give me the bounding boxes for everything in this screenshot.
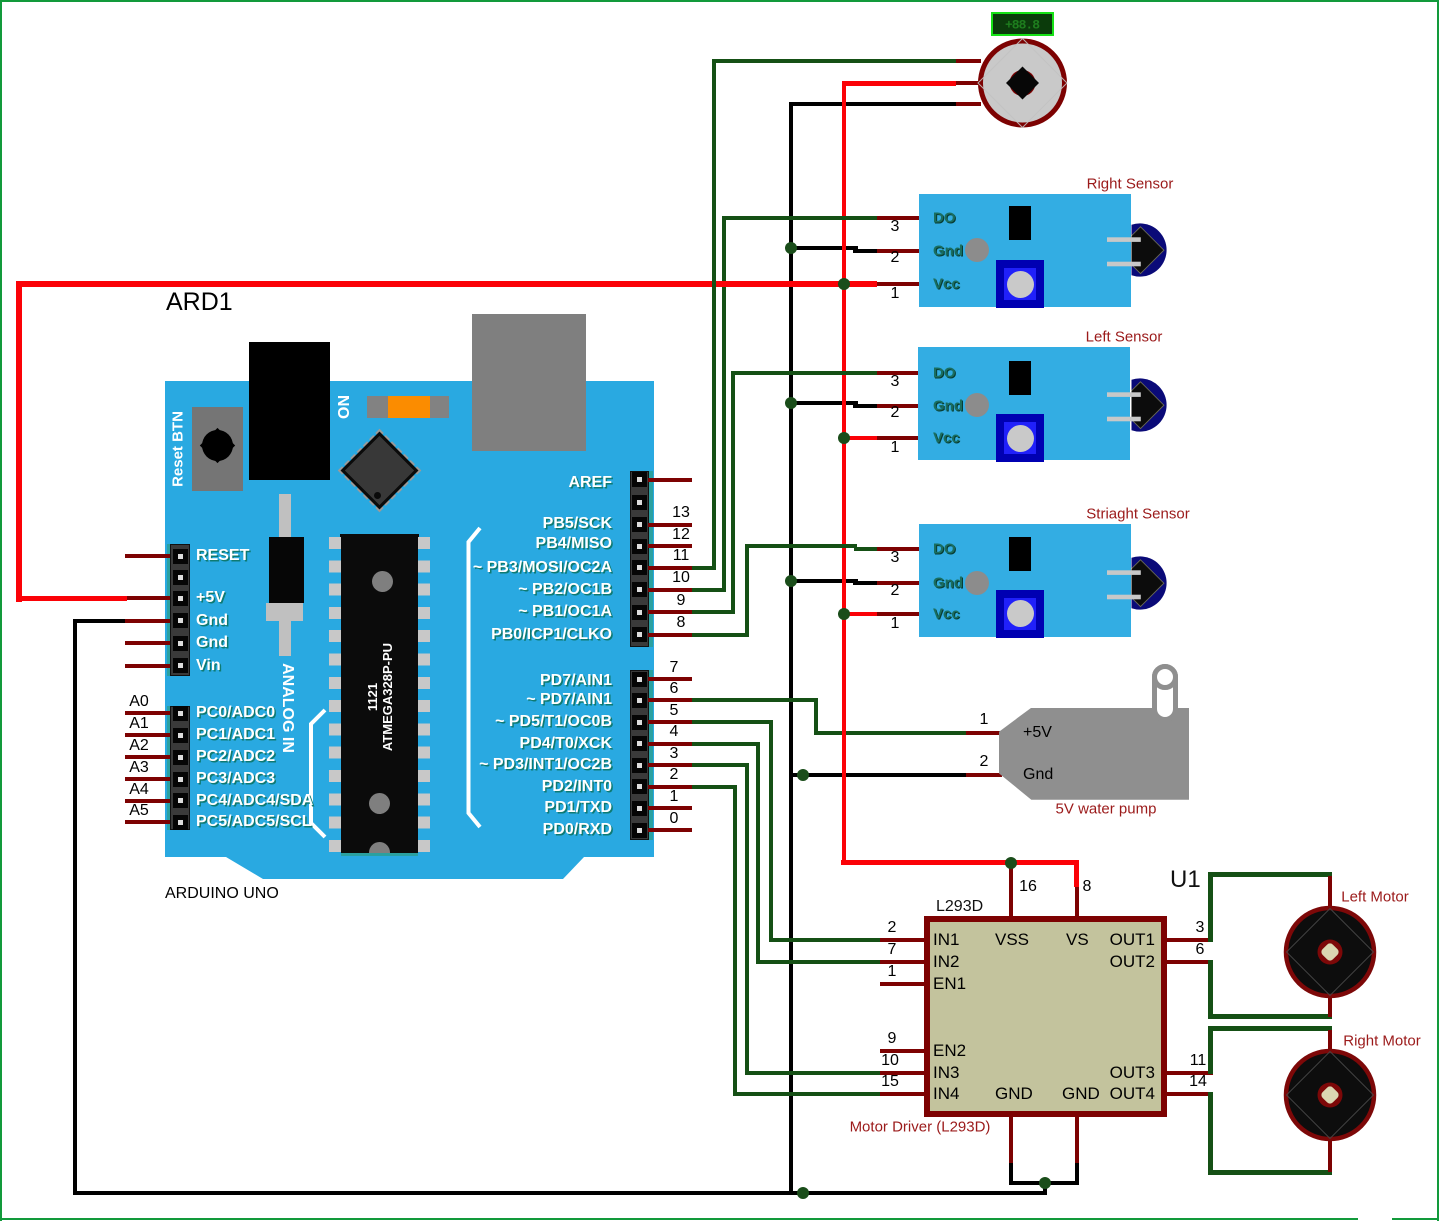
sensor trimmer pot — [996, 414, 1044, 462]
header pin cells right lower — [632, 672, 647, 687]
wire green Right Sensor DO horizontal — [722, 216, 878, 220]
pump pin number 1 — [980, 711, 989, 729]
servo motor body — [974, 35, 1072, 133]
pin number 11 — [1190, 1052, 1207, 1070]
pin stub L293D EN1 — [880, 982, 924, 986]
wire black L293D GND link — [1009, 1181, 1079, 1185]
wire black ground rail vertical — [789, 102, 793, 1193]
pin stub D6 — [648, 698, 692, 702]
wire green pin6 vertical — [814, 698, 818, 735]
wire black GND drop to rail — [1043, 1183, 1047, 1193]
wire green pump +5V horizontal — [814, 731, 966, 735]
label 5V water pump — [1056, 801, 1157, 818]
arduino ARD1 board — [165, 381, 654, 879]
label ARD1 — [166, 288, 233, 317]
sensor hole grey — [965, 571, 989, 595]
pump label +5V — [1023, 724, 1052, 742]
label Motor Driver (L293D) — [850, 1119, 991, 1136]
IC pin label IN4 — [933, 1084, 959, 1104]
pin stub L293D OUT1 — [1167, 938, 1213, 942]
header pin cells left power — [173, 549, 188, 564]
IC pin label EN2 — [933, 1041, 966, 1061]
wire red Left Sensor Vcc — [841, 436, 877, 440]
pin stub D11 — [648, 566, 692, 570]
watermark gap on bottom border — [1358, 1213, 1392, 1220]
pin stub Striaght Sensor DO — [877, 547, 919, 551]
pin stub A3 — [125, 777, 170, 781]
pin number 2 — [891, 582, 900, 600]
wire black Striaght Sensor Gnd — [791, 579, 858, 583]
pin label DO — [933, 364, 956, 381]
junction +5V at L293D pin16 — [1005, 857, 1017, 869]
wire green right motor bottom loop — [1208, 1092, 1213, 1174]
pin stub right motor bottom — [1328, 1138, 1332, 1172]
IC pin label IN2 — [933, 952, 959, 972]
wire green servo signal vertical to pin11 — [712, 59, 716, 570]
wire green pin5 link — [692, 720, 773, 724]
IC pin label OUT3 — [1110, 1063, 1155, 1083]
pin stub servo signal — [956, 59, 981, 63]
pin number 1 — [891, 285, 900, 303]
wire +5V red top horizontal to Right Sensor Vcc — [16, 281, 877, 287]
pin stub D13 — [648, 523, 692, 527]
pin number 2 — [891, 249, 900, 267]
pin stub L293D GND2 — [1075, 1117, 1079, 1163]
junction +5V at Right Sensor Vcc — [838, 278, 850, 290]
wire green Striaght DO vertical to pin8 — [745, 544, 749, 637]
pin stub right motor top — [1328, 1030, 1332, 1052]
pin stub L293D IN1 — [880, 938, 924, 942]
ON led — [367, 396, 449, 418]
sensor ic black — [1009, 537, 1031, 572]
pin stub D1 — [648, 806, 692, 810]
pin stub L293D EN2 — [880, 1049, 924, 1053]
wire green pin4 link — [692, 742, 760, 746]
pin label DO — [933, 540, 956, 557]
pin stub D5 — [648, 720, 692, 724]
pin stub D7 — [648, 677, 692, 681]
label Right Sensor title — [1087, 175, 1174, 192]
IC pin label IN3 — [933, 1063, 959, 1083]
junction gnd Left Sensor — [785, 397, 797, 409]
pin label Gnd — [933, 243, 963, 260]
IC pin label IN1 — [933, 930, 959, 950]
water pump body — [999, 708, 1189, 800]
IC pin label GND — [1062, 1084, 1100, 1104]
sensor IR receiver — [1100, 548, 1180, 618]
wire green Striaght Sensor DO horizontal — [745, 544, 857, 548]
pin stub left motor top — [1328, 876, 1332, 909]
sensor module Left Sensor — [918, 347, 1130, 460]
pin stub Vin — [125, 664, 170, 668]
IC pins right — [418, 537, 430, 855]
pin number 9 — [888, 1030, 897, 1048]
pin stub L293D GND1 — [1009, 1117, 1013, 1163]
IC text 1121 ATMEGA328P-PU — [365, 643, 395, 751]
arduino pin labels left (white) — [196, 547, 249, 565]
junction gnd pump — [797, 769, 809, 781]
IC ATMEGA328P body — [340, 534, 419, 855]
left power header — [167, 544, 171, 676]
pin stub AREF — [648, 478, 692, 482]
wire black L293D GND2 down — [1075, 1163, 1079, 1185]
pin stub D9 — [648, 610, 692, 614]
IC pin label VSS — [995, 930, 1029, 950]
pin stub A4 — [125, 799, 170, 803]
wire Gnd black from arduino — [75, 619, 125, 623]
IC U1 L293D motor driver — [924, 916, 1167, 1117]
IC pin label VS — [1066, 930, 1089, 950]
wire green Right DO vertical to pin10 — [722, 216, 726, 592]
frame border right — [1437, 0, 1439, 1221]
label ANALOG IN — [278, 663, 296, 753]
sensor trimmer pot — [996, 260, 1044, 308]
crystal/qfp chip — [338, 429, 421, 512]
pin stub Striaght Sensor Vcc — [877, 612, 919, 616]
pin stub Left Sensor Gnd — [877, 404, 919, 408]
wire green pin2 link — [692, 785, 737, 789]
wire green pin5 vertical to IN1 — [769, 720, 773, 942]
pin number 2 — [891, 404, 900, 422]
IC pins left — [329, 537, 341, 855]
label L293D — [936, 898, 983, 916]
pin stub L293D VSS pin16 — [1009, 865, 1013, 917]
label Reset BTN — [170, 411, 187, 487]
IC pin label GND — [995, 1084, 1033, 1104]
junction gnd L293D — [1039, 1177, 1051, 1189]
label Left Sensor title — [1086, 329, 1163, 346]
wire black Left Sensor Gnd — [791, 401, 858, 405]
pin stub Right Sensor Gnd — [877, 249, 919, 253]
wire green pin2 vertical to IN4 — [733, 785, 737, 1096]
wire Gnd black bottom horizontal — [73, 1191, 1047, 1195]
wire green servo signal horizontal — [712, 59, 956, 63]
pin number 15 — [881, 1073, 899, 1091]
wire green pin9 link — [692, 610, 735, 614]
water pump pipe — [1152, 664, 1178, 722]
wire black pump Gnd — [791, 773, 966, 777]
pump label Gnd — [1023, 766, 1053, 784]
motor left — [1283, 905, 1377, 999]
sensor IR receiver — [1100, 370, 1180, 440]
white bracket right (PB/PD pins) — [460, 520, 490, 835]
label ARDUINO UNO — [165, 885, 279, 903]
frame border top — [0, 0, 1439, 2]
pin stub arduino +5V — [127, 596, 170, 600]
wire green pin3 link — [692, 763, 749, 767]
wire Gnd black vertical left — [73, 619, 77, 1196]
wire red Striaght Sensor Vcc — [841, 612, 877, 616]
pin stub L293D OUT2 — [1167, 960, 1213, 964]
pin stub pump Gnd — [966, 773, 1002, 777]
pin stub Right Sensor DO — [877, 216, 919, 220]
pin stub D3 — [648, 763, 692, 767]
pin stub Right Sensor Vcc — [877, 282, 919, 286]
motor right — [1283, 1048, 1377, 1142]
wire green Left Sensor DO horizontal — [731, 371, 877, 375]
label Left Motor — [1341, 889, 1409, 906]
pump pin number 2 — [980, 753, 989, 771]
left analog header — [167, 706, 171, 830]
wire green pin11 link — [692, 566, 716, 570]
wire green pin3 vertical to IN3 — [745, 763, 749, 1075]
pin number 14 — [1189, 1073, 1207, 1091]
pin stub Gnd2 — [125, 641, 170, 645]
wire green IN1 horizontal — [769, 938, 880, 942]
pin stub arduino Gnd — [125, 619, 170, 623]
wire +5V red vertical left — [16, 281, 22, 602]
pin number 6 — [1196, 941, 1205, 959]
pin stub D4 — [648, 742, 692, 746]
sensor IR receiver — [1100, 215, 1180, 285]
white bracket left (analog pins) — [303, 702, 333, 845]
wire green Left DO vertical to pin9 — [731, 371, 735, 614]
pin number 3 — [891, 373, 900, 391]
sensor ic black — [1009, 361, 1031, 396]
label Right Motor — [1343, 1033, 1421, 1050]
pin stub A1 — [125, 733, 170, 737]
arduino pin labels right (white) — [568, 474, 612, 492]
wire red elbow to L293D VS pin8 — [1074, 863, 1079, 888]
wire green left motor top loop — [1208, 874, 1213, 942]
pin number 1 — [891, 439, 900, 457]
wire black L293D GND1 down — [1009, 1163, 1013, 1185]
junction +5V at Left Sensor Vcc — [838, 432, 850, 444]
pin number 7 — [888, 941, 897, 959]
pin stub L293D IN4 — [880, 1092, 924, 1096]
IC pin label OUT1 — [1110, 930, 1155, 950]
pin stub L293D IN3 — [880, 1071, 924, 1075]
capacitor body — [269, 537, 304, 603]
pin label Gnd — [933, 575, 963, 592]
pin number 1 — [888, 963, 897, 981]
wire black Right Sensor Gnd — [791, 246, 858, 250]
junction +5V at Striaght Sensor Vcc — [838, 608, 850, 620]
junction gnd Right Sensor — [785, 242, 797, 254]
pin stub D2 — [648, 785, 692, 789]
pin stub left motor bottom — [1328, 995, 1332, 1017]
wire black servo ground — [791, 102, 956, 106]
wire green IN4 horizontal — [733, 1092, 880, 1096]
pin stub pump +5V — [966, 731, 1002, 735]
sensor module Striaght Sensor — [919, 524, 1131, 637]
pin stub Striaght Sensor Gnd — [877, 581, 919, 585]
pin number 3 — [891, 218, 900, 236]
frame border left — [0, 0, 2, 1221]
pin stub D10 — [648, 588, 692, 592]
junction gnd bottom rail — [797, 1187, 809, 1199]
wire green left motor bottom loop — [1208, 960, 1213, 1019]
sensor hole grey — [965, 238, 989, 262]
wire green pin10 link — [692, 588, 726, 592]
IC pin label EN1 — [933, 974, 966, 994]
pin stub servo ground — [956, 102, 981, 106]
wire green pin4 vertical to IN2 — [756, 742, 760, 965]
pin number 8 — [1083, 878, 1092, 896]
header pin cells right upper — [632, 472, 647, 487]
wire green pin8 link — [692, 633, 749, 637]
pin stub A5 — [125, 820, 170, 824]
pin label Vcc — [933, 276, 960, 293]
sensor ic black — [1009, 206, 1031, 241]
sensor module Right Sensor — [919, 194, 1131, 307]
pin stub servo power — [956, 81, 981, 85]
pin label Gnd — [933, 397, 963, 414]
frame border bottom — [0, 1218, 1439, 1220]
sensor hole grey — [965, 393, 989, 417]
pin stub L293D OUT3 — [1167, 1071, 1213, 1075]
pin stub D0 — [648, 828, 692, 832]
wire red horizontal above L293D — [841, 860, 1079, 865]
junction gnd Striaght Sensor — [785, 575, 797, 587]
pin number 3 — [891, 549, 900, 567]
power jack J1 — [249, 342, 330, 480]
pin stub RESET — [125, 554, 170, 558]
IC bottom teal edge — [341, 853, 418, 856]
wire green right motor top loop — [1208, 1029, 1213, 1075]
pin stub L293D IN2 — [880, 960, 924, 964]
capacitor lead — [279, 494, 291, 656]
pin stub L293D VS pin8 — [1075, 887, 1079, 917]
right upper header — [630, 471, 649, 647]
pin number 2 — [888, 919, 897, 937]
pin number 3 — [1196, 919, 1205, 937]
wire +5V red to arduino +5V pin — [16, 596, 127, 601]
wire red servo power — [844, 81, 956, 86]
pin stub Left Sensor DO — [877, 371, 919, 375]
pin stub A2 — [125, 755, 170, 759]
wire green IN2 horizontal — [756, 960, 880, 964]
header pin cells left analog — [173, 706, 188, 721]
pin label DO — [933, 209, 956, 226]
wire green IN3 horizontal — [745, 1071, 881, 1075]
sensor trimmer pot — [996, 590, 1044, 638]
reset button — [192, 407, 243, 491]
IC pin label OUT2 — [1110, 952, 1155, 972]
pin stub A0 — [125, 711, 170, 715]
pin stub L293D OUT4 — [1167, 1092, 1213, 1096]
IC pin label OUT4 — [1110, 1084, 1155, 1104]
label ON — [336, 395, 354, 419]
pin number 10 — [881, 1052, 899, 1070]
pin number 16 — [1019, 878, 1037, 896]
servo display +88.8 — [991, 12, 1054, 36]
pin stub D12 — [648, 544, 692, 548]
pin label Vcc — [933, 605, 960, 622]
label U1 — [1170, 866, 1201, 894]
pin number 1 — [891, 615, 900, 633]
pin label Vcc — [933, 430, 960, 447]
usb connector — [472, 314, 586, 451]
right lower header — [630, 670, 649, 840]
label Striaght Sensor title — [1086, 505, 1189, 522]
wire green pin6 to pump horizontal — [692, 698, 818, 702]
pin stub D8 — [648, 633, 692, 637]
wire red vertical power rail — [842, 81, 846, 863]
pin stub Left Sensor Vcc — [877, 436, 919, 440]
